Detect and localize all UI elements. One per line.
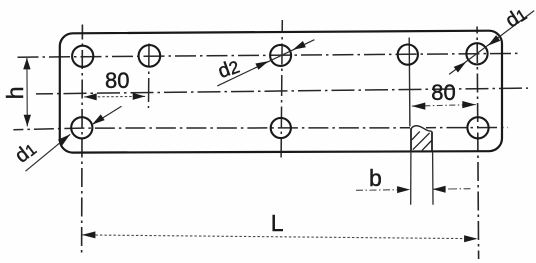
arrowhead h top <box>23 58 30 70</box>
arrowhead d2 lower <box>255 61 268 70</box>
centerline vertical column 2 (short) <box>148 44 151 109</box>
svg-text:b: b <box>369 165 382 191</box>
d2 leader diagonal line <box>217 40 314 86</box>
centerline bottom row horizontal <box>13 128 508 130</box>
arrowhead L right <box>464 235 478 242</box>
hole B1 <box>71 117 92 138</box>
80 right dimension line <box>412 105 476 107</box>
hole B5 <box>467 117 488 138</box>
centerline vertical column 3 <box>281 20 282 158</box>
rib section bar right edge <box>431 132 433 152</box>
hole T2 <box>139 45 161 67</box>
rib section hatch line 3 <box>422 141 432 151</box>
plate outline <box>60 31 502 153</box>
d1 bottom-left leader lower segment <box>26 134 71 171</box>
centerline vertical column 5 <box>477 27 479 260</box>
hole T5 <box>466 43 487 64</box>
centerline vertical column 1 <box>81 25 84 254</box>
arrowhead 80 left dim, left <box>84 93 97 100</box>
L dimension line (dotted) <box>82 235 478 239</box>
arrowhead 80 right dim, left <box>412 103 426 110</box>
svg-text:h: h <box>2 86 28 99</box>
b dimension tail right <box>433 188 471 191</box>
arrowhead d1 bottom-left upper <box>92 114 105 124</box>
rib section hatch line 2 <box>413 133 430 150</box>
extension line below bar left <box>410 152 412 205</box>
arrowhead d1 bottom-left lower <box>58 134 70 145</box>
arrowhead b left <box>397 186 410 193</box>
centerline vertical column 4 (solid extension through hole T4) <box>408 38 411 127</box>
rib section hatch line 1 <box>412 131 420 139</box>
b dimension tail left <box>356 189 410 192</box>
h dimension line <box>26 58 28 126</box>
d1 top-right leader diagonal line <box>449 11 534 75</box>
arrowhead b right <box>433 186 446 193</box>
arrowhead d2 upper <box>293 41 306 50</box>
arrowhead 80 right dim, right <box>462 101 476 108</box>
rib section bar broken top edge <box>411 126 432 132</box>
arrowhead d1 top-right upper <box>488 35 501 46</box>
arrowhead L left <box>82 231 96 238</box>
arrowhead d1 top-right lower <box>454 62 467 73</box>
centerline middle horizontal <box>36 88 528 94</box>
centerline top row horizontal <box>18 53 520 57</box>
hole B3 <box>271 118 291 138</box>
hole T4 <box>398 45 418 65</box>
d1 bottom-left leader upper segment <box>92 106 122 124</box>
arrowhead h bottom <box>24 115 31 127</box>
hole T1 <box>72 46 93 67</box>
extension line below bar right <box>432 152 434 205</box>
arrowhead 80 left dim, right <box>133 93 146 100</box>
rib section bar left edge <box>410 128 412 151</box>
svg-text:80: 80 <box>105 68 129 93</box>
80 left dimension line (dotted) <box>84 95 145 98</box>
svg-text:80: 80 <box>431 80 455 105</box>
svg-text:L: L <box>271 210 284 236</box>
hole T3 <box>270 45 291 66</box>
